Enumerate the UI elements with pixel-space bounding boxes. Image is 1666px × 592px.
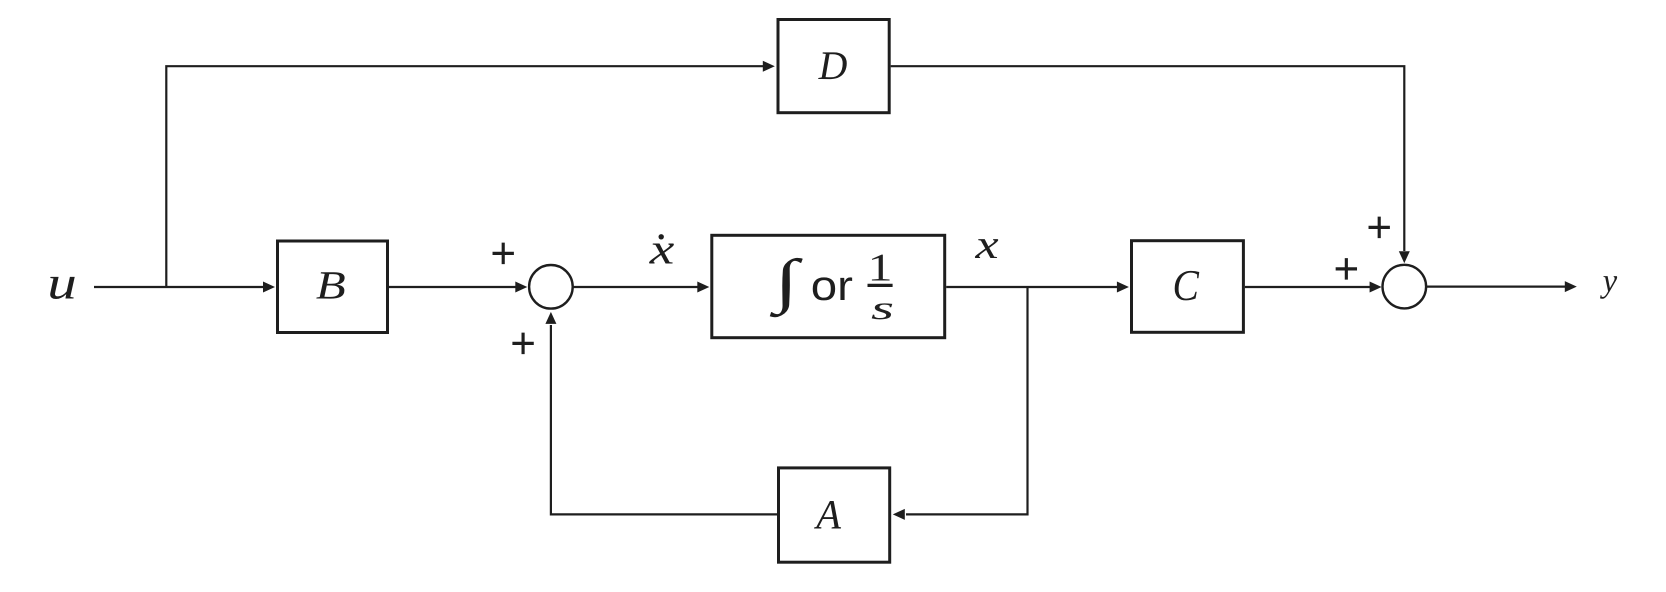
svg-text:y: y [1600, 263, 1617, 300]
svg-text:B: B [316, 262, 346, 307]
svg-text:D: D [818, 43, 848, 88]
arrowhead into sum2 top [1399, 251, 1410, 263]
wire integrator to C [946, 286, 1117, 288]
arrowhead into sum1 bottom [545, 312, 556, 324]
arrowhead into sum2 left [1370, 282, 1382, 293]
svg-text:+: + [1366, 203, 1392, 252]
wire branch down from x to A [906, 287, 1028, 514]
wire u input [94, 286, 264, 288]
svg-text:+: + [490, 229, 516, 278]
dot of x-dot [659, 234, 664, 239]
wire B to sum1 [389, 286, 516, 288]
block C [1132, 241, 1244, 333]
arrowhead into sum1 left [515, 282, 527, 293]
svg-text:C: C [1173, 261, 1200, 310]
svg-text:u: u [47, 258, 77, 310]
svg-text:x: x [974, 221, 998, 267]
summing junction sum1 [529, 265, 573, 309]
svg-text:∫: ∫ [769, 248, 804, 318]
svg-text:s: s [871, 290, 894, 327]
summing junction sum2 [1383, 265, 1427, 309]
wire branch from u up to D [166, 66, 763, 287]
block A [779, 468, 890, 562]
svg-text:+: + [510, 319, 536, 368]
arrowhead into integrator [697, 282, 709, 293]
wire A to sum1 [551, 325, 777, 514]
svg-text:or: or [811, 262, 853, 309]
arrowhead into D [763, 61, 775, 72]
integrator contents [769, 246, 895, 327]
svg-text:x: x [649, 226, 675, 274]
wire D output to sum2 [891, 66, 1405, 251]
svg-text:A: A [813, 492, 841, 538]
block integrator [712, 235, 945, 337]
wire sum2 to y [1427, 286, 1565, 288]
block B [278, 241, 388, 333]
svg-text:1: 1 [868, 246, 893, 289]
wire sum1 to integrator [573, 286, 698, 288]
svg-text:+: + [1334, 245, 1360, 294]
arrowhead into C [1117, 282, 1129, 293]
fraction bar [868, 284, 893, 287]
arrowhead output y [1565, 281, 1577, 292]
arrowhead into A right side [893, 509, 905, 520]
block D [778, 20, 889, 113]
arrowhead into B [263, 282, 275, 293]
wire C to sum2 [1245, 286, 1370, 288]
